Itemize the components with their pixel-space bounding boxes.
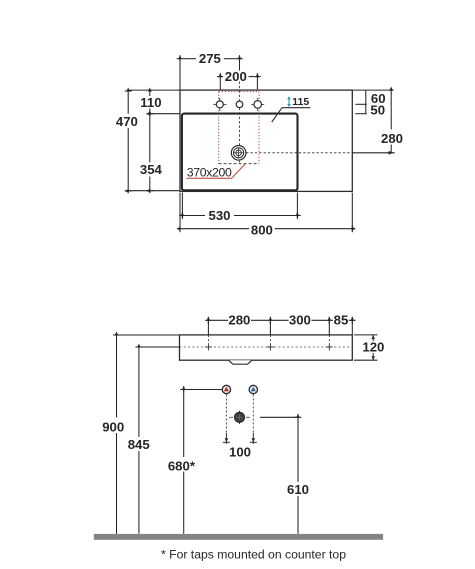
svg-text:370x200: 370x200	[187, 166, 232, 180]
svg-text:100: 100	[229, 444, 251, 459]
svg-text:120: 120	[362, 340, 384, 355]
svg-text:610: 610	[287, 482, 309, 497]
svg-text:900: 900	[102, 419, 124, 434]
svg-text:110: 110	[140, 95, 161, 110]
svg-text:800: 800	[251, 223, 273, 238]
svg-text:85: 85	[334, 313, 349, 328]
svg-text:845: 845	[128, 437, 150, 452]
svg-text:50: 50	[370, 102, 385, 117]
svg-text:530: 530	[208, 208, 230, 223]
svg-text:200: 200	[225, 69, 247, 84]
svg-text:354: 354	[140, 162, 163, 177]
svg-text:115: 115	[292, 96, 309, 108]
svg-text:280: 280	[381, 131, 403, 146]
svg-text:275: 275	[199, 51, 221, 66]
svg-text:300: 300	[289, 313, 311, 328]
svg-text:680*: 680*	[168, 458, 196, 473]
svg-text:* For taps mounted on counter: * For taps mounted on counter top	[161, 548, 346, 562]
svg-text:470: 470	[116, 114, 138, 129]
svg-text:280: 280	[228, 313, 250, 328]
